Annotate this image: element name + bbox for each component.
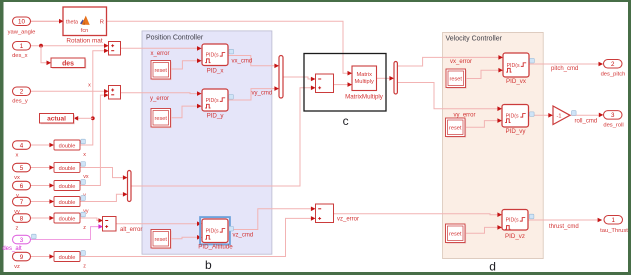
- wire branch des_x to des goto: [41, 46, 51, 65]
- svg-text:c: c: [343, 114, 349, 128]
- input port 9 vz: [13, 252, 31, 269]
- svg-text:actual: actual: [47, 116, 66, 123]
- svg-text:vx_error: vx_error: [450, 59, 472, 65]
- svg-text:yaw_angle: yaw_angle: [8, 30, 36, 36]
- wire des_alt port3 to alt sum plus magenta: [31, 224, 104, 239]
- MATLAB function block Rotation mat: [63, 7, 107, 45]
- wire reset4 to PID_vx: [465, 68, 503, 79]
- svg-text:pitch_cmd: pitch_cmd: [551, 66, 578, 72]
- cmd mux bar: [279, 56, 283, 99]
- svg-text:double: double: [59, 216, 76, 222]
- sum1 des_x minus x: [109, 42, 121, 56]
- svg-text:4: 4: [20, 142, 24, 149]
- input port 5 vx: [13, 163, 31, 181]
- data type conversion double6: [54, 251, 86, 270]
- des tag block: [51, 58, 86, 69]
- svg-text:Position Controller: Position Controller: [146, 34, 204, 41]
- reset block 1: [151, 61, 172, 81]
- svg-text:z: z: [16, 225, 19, 231]
- PID_y block: [202, 89, 233, 119]
- svg-text:vz_error: vz_error: [337, 217, 359, 223]
- svg-text:roll_cmd: roll_cmd: [575, 118, 598, 124]
- svg-text:Velocity Controller: Velocity Controller: [446, 35, 503, 42]
- svg-text:d: d: [489, 259, 496, 273]
- wire x feedback to sum1 minus: [80, 48, 109, 145]
- svg-text:vy_cmd: vy_cmd: [252, 90, 273, 96]
- wire demux to vx_error: [398, 55, 503, 66]
- wire demux to vy_error: [398, 83, 502, 112]
- label thrust_cmd: [549, 224, 579, 230]
- demux bar: [394, 62, 397, 95]
- wire roll_cmd gain to port des_roll: [570, 113, 603, 118]
- svg-text:des_y: des_y: [12, 99, 28, 105]
- svg-text:7: 7: [20, 199, 24, 206]
- svg-text:PID_vz: PID_vz: [505, 233, 525, 240]
- svg-text:z: z: [83, 225, 86, 231]
- svg-text:vx: vx: [83, 174, 89, 180]
- wire reset5 to PID_vy: [465, 118, 503, 127]
- svg-text:R: R: [100, 19, 104, 25]
- label vx_cmd: [232, 58, 253, 64]
- data type conversion double5: [54, 212, 86, 231]
- input port 10 yaw_angle: [8, 17, 36, 36]
- sum c velocity error: [316, 74, 334, 93]
- wire vx_cmd PID_x to cmd mux: [228, 56, 279, 69]
- label x_error: [151, 51, 170, 57]
- svg-text:2: 2: [20, 89, 24, 96]
- wire pitch_cmd PID_vx to port des_pitch: [529, 62, 603, 67]
- input port 4 x: [13, 141, 31, 159]
- input port 7 vy: [13, 197, 31, 215]
- PID_vy block: [502, 105, 534, 135]
- svg-text:z: z: [83, 263, 86, 269]
- svg-text:5: 5: [20, 165, 24, 172]
- svg-text:3: 3: [611, 112, 615, 119]
- svg-text:des_pitch: des_pitch: [601, 71, 626, 77]
- svg-text:alt_error: alt_error: [120, 227, 142, 233]
- wire port8 z to double5: [31, 216, 55, 221]
- sum2 des_y minus y: [109, 86, 121, 100]
- svg-text:des: des: [62, 60, 74, 67]
- label vy_cmd: [252, 90, 273, 96]
- c black box: [304, 54, 386, 112]
- svg-text:Multiply: Multiply: [355, 79, 374, 85]
- svg-text:des_roll: des_roll: [603, 122, 623, 128]
- wire fcn R to MatrixMultiply input 1: [107, 21, 353, 75]
- svg-text:1: 1: [612, 217, 616, 224]
- svg-text:thrust_cmd: thrust_cmd: [549, 224, 579, 230]
- input port 6 y: [13, 181, 31, 199]
- PID_vz block: [502, 210, 534, 241]
- reset block 2: [151, 109, 172, 129]
- vz sum: [316, 204, 334, 223]
- svg-text:vx_cmd: vx_cmd: [232, 58, 253, 64]
- output port 2 des_pitch: [601, 60, 626, 78]
- wire port10 to fcn: [31, 19, 64, 24]
- wire x_error sum1 to PID_x: [121, 46, 202, 51]
- svg-text:theta: theta: [66, 19, 78, 25]
- reset block 5: [446, 118, 467, 138]
- svg-text:double: double: [59, 184, 76, 190]
- wire PID_vy to gain: [529, 113, 553, 118]
- label b: [205, 258, 212, 272]
- x small label near feedback: [88, 82, 91, 88]
- alt sum z minus des_alt: [103, 217, 117, 232]
- svg-text:3: 3: [20, 237, 24, 244]
- svg-text:2: 2: [611, 61, 615, 68]
- svg-text:10: 10: [18, 19, 25, 26]
- wire z double5 to alt sum minus: [80, 218, 103, 223]
- svg-text:double: double: [59, 200, 76, 206]
- svg-text:x_error: x_error: [151, 51, 170, 57]
- svg-text:vz_cmd: vz_cmd: [233, 232, 254, 238]
- svg-text:reset: reset: [155, 68, 168, 74]
- wire reset6 to PID_vz: [466, 225, 503, 233]
- wire vz double6 to vz sum plus: [80, 216, 316, 256]
- output port 3 des_roll: [603, 111, 623, 129]
- wire actual vel mux to sum c plus: [131, 86, 316, 187]
- reset block 6: [446, 224, 467, 244]
- label d: [489, 259, 496, 273]
- wire vx double2 to vel mux: [80, 168, 128, 180]
- output port 1 tau_Thrust: [600, 216, 628, 235]
- wire vz_error vz sum to PID_vz: [334, 212, 503, 217]
- badge port3 anchor: [32, 234, 37, 239]
- wire y feedback to sum2 minus: [80, 93, 109, 186]
- svg-text:des_x: des_x: [12, 53, 28, 59]
- svg-text:PID_y: PID_y: [207, 112, 225, 119]
- wire port5 vx to double2: [31, 165, 55, 170]
- wire port9 vz to double6: [31, 254, 55, 259]
- wire branch x to actual: [74, 116, 93, 121]
- svg-text:-1: -1: [557, 114, 562, 120]
- wire sum c to MatrixMultiply input 2: [334, 82, 353, 87]
- wire y_error sum2 to PID_y: [121, 91, 202, 96]
- data type conversion double3: [54, 180, 86, 199]
- svg-text:PID(s: PID(s: [206, 229, 219, 235]
- input port 8 z: [13, 214, 31, 232]
- svg-text:tau_Thrust: tau_Thrust: [600, 228, 628, 234]
- svg-text:fcn: fcn: [81, 28, 88, 34]
- svg-text:double: double: [59, 255, 76, 261]
- wire alt_error alt sum to PID_Altitude: [116, 221, 202, 226]
- input port 1 des_x: [12, 42, 30, 60]
- data type conversion double2: [54, 162, 89, 181]
- vel mux bar: [128, 171, 132, 202]
- gain -1 triangle: [553, 106, 576, 125]
- svg-text:x: x: [88, 82, 91, 88]
- region b Position Controller area: [142, 31, 272, 254]
- svg-text:reset: reset: [450, 76, 463, 82]
- PID_Altitude block selected: [198, 217, 233, 250]
- wire MatrixMultiply to demux: [377, 76, 395, 81]
- svg-text:reset: reset: [155, 237, 168, 243]
- actual tag block: [40, 114, 75, 125]
- wire vy_cmd PID_y to cmd mux: [228, 86, 279, 100]
- svg-text:x: x: [83, 152, 86, 158]
- svg-text:PID_vx: PID_vx: [506, 78, 527, 85]
- svg-text:Matrix: Matrix: [356, 72, 372, 78]
- svg-text:PID(s: PID(s: [506, 218, 519, 224]
- Matrix Multiply block: [345, 66, 384, 101]
- wire cmd mux to sum c minus: [283, 77, 316, 82]
- label c: [343, 114, 349, 128]
- PID_x block: [202, 44, 234, 74]
- svg-text:x: x: [16, 152, 19, 158]
- svg-text:PID(s: PID(s: [206, 53, 219, 59]
- svg-text:des_alt: des_alt: [2, 246, 22, 252]
- svg-text:PID_Altitude: PID_Altitude: [198, 243, 233, 250]
- label roll_cmd: [575, 118, 598, 124]
- input port 3 des_alt selected magenta: [2, 235, 30, 252]
- svg-text:reset: reset: [449, 231, 462, 237]
- label vz_error: [337, 217, 359, 223]
- svg-text:PID(s: PID(s: [206, 98, 219, 104]
- svg-text:Rotation mat: Rotation mat: [66, 38, 102, 45]
- label y_error: [150, 96, 169, 102]
- svg-text:9: 9: [20, 254, 24, 261]
- svg-text:y_error: y_error: [150, 96, 169, 102]
- wire port2 des_y to sum2: [31, 89, 109, 94]
- wire reset3 to PID_Altitude: [171, 235, 202, 240]
- wire port4 x to double1: [31, 143, 55, 148]
- reset block 3: [151, 230, 172, 250]
- svg-text:double: double: [59, 143, 76, 149]
- label vx_error: [450, 59, 472, 65]
- region Velocity Controller area: [443, 32, 544, 258]
- svg-text:vz: vz: [14, 264, 20, 270]
- svg-text:double: double: [59, 166, 76, 172]
- svg-text:b: b: [205, 258, 212, 272]
- reset block 4: [446, 69, 467, 89]
- svg-text:6: 6: [20, 183, 24, 190]
- input port 2 des_y: [12, 87, 30, 105]
- wire thrust_cmd PID_vz to port tau_Thrust: [528, 218, 602, 223]
- wire vy double4 to vel mux: [80, 192, 128, 202]
- svg-text:reset: reset: [449, 125, 462, 131]
- wire port1 des_x to sum1: [31, 43, 109, 48]
- svg-text:vy_error: vy_error: [454, 112, 476, 118]
- svg-text:MatrixMultiply: MatrixMultiply: [345, 94, 384, 101]
- wire vz_cmd PID_Altitude to vz sum minus: [228, 207, 316, 230]
- wire port7 vy to double4: [31, 199, 55, 204]
- wire reset1 to PID_x: [171, 58, 202, 69]
- svg-text:vx: vx: [14, 175, 20, 181]
- PID_vx block: [503, 53, 534, 85]
- svg-text:PID_x: PID_x: [207, 67, 225, 74]
- label alt_error: [120, 227, 142, 233]
- wire reset2 to PID_y: [171, 104, 202, 118]
- svg-text:PID_vy: PID_vy: [506, 128, 527, 135]
- label vy_error: [454, 112, 476, 118]
- label vz_cmd: [233, 232, 254, 238]
- svg-text:8: 8: [20, 215, 24, 222]
- label pitch_cmd: [551, 66, 578, 72]
- wire port6 y to double3: [31, 183, 55, 188]
- data type conversion double4: [54, 196, 89, 215]
- svg-text:1: 1: [20, 43, 24, 50]
- svg-text:reset: reset: [155, 116, 168, 122]
- data type conversion double1: [54, 139, 86, 158]
